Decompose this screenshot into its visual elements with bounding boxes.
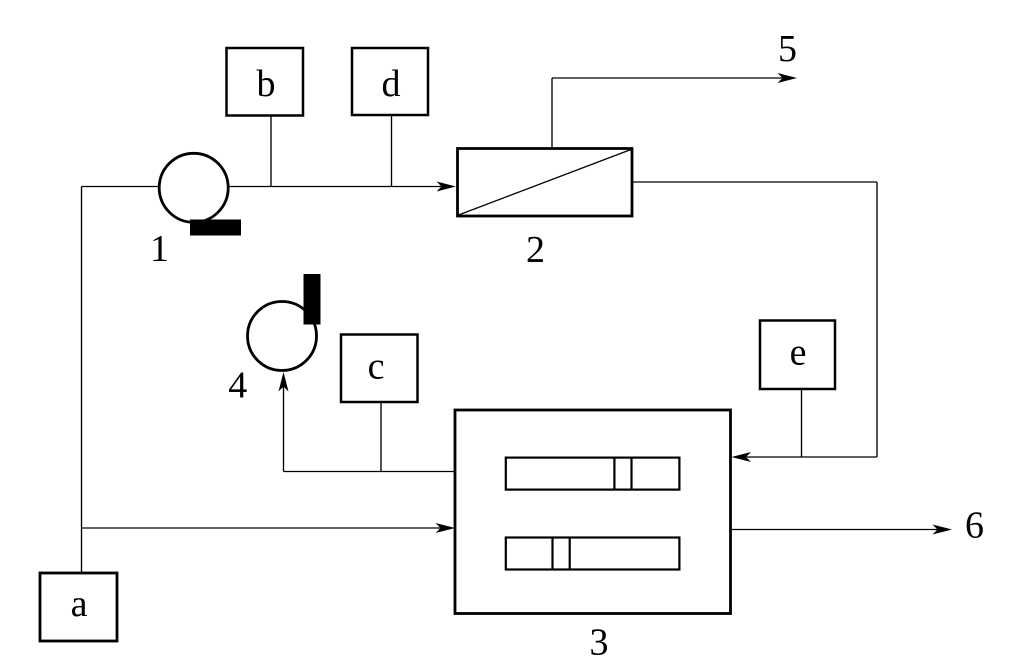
- unit 2 box: [458, 149, 633, 217]
- unit 3 lower cartridge divider 2: [569, 538, 571, 570]
- svg-text:1: 1: [150, 228, 169, 270]
- unit 3 upper cartridge: [506, 458, 680, 490]
- box c: [341, 335, 418, 403]
- unit 3 box: [455, 410, 731, 614]
- svg-text:d: d: [382, 63, 401, 105]
- wire right vertical down: [876, 182, 878, 457]
- unit 3 lower cartridge divider 1: [551, 538, 553, 570]
- svg-text:b: b: [257, 63, 276, 105]
- svg-text:4: 4: [228, 365, 247, 407]
- arrowhead into unit 2: [437, 182, 457, 192]
- svg-text:3: 3: [590, 622, 609, 658]
- valve 4 black rect: [304, 274, 321, 325]
- unit 3 upper cartridge divider 2: [630, 458, 632, 490]
- svg-text:a: a: [71, 583, 88, 625]
- valve 4 circle: [248, 302, 317, 371]
- arrowhead into unit 3 right side: [732, 452, 752, 462]
- box d: [352, 48, 428, 115]
- wire stem from box c: [380, 402, 382, 472]
- pump 1 circle: [159, 153, 228, 222]
- wire horizontal to outlet 5: [552, 77, 783, 79]
- unit 3 lower cartridge: [506, 538, 680, 570]
- box e: [760, 321, 835, 390]
- arrowhead into unit 3 left side: [436, 523, 456, 533]
- pump 1 base black rect: [190, 220, 241, 236]
- box b: [227, 48, 304, 116]
- wire outlet 6 from unit 3: [731, 529, 939, 531]
- wire horizontal from unit 3 to valve 4 branch: [284, 471, 456, 473]
- wire stem from box b: [270, 116, 272, 187]
- wire stem up from unit 2 top: [551, 78, 553, 149]
- arrowhead into valve 4: [279, 372, 289, 392]
- svg-text:c: c: [368, 346, 385, 388]
- unit 2 diagonal: [459, 150, 632, 216]
- svg-text:6: 6: [965, 505, 984, 547]
- unit 3 upper cartridge divider 1: [613, 458, 615, 490]
- svg-text:5: 5: [778, 28, 797, 70]
- wire top horizontal feed into unit 2: [82, 186, 442, 188]
- box a: [40, 573, 117, 641]
- wire vertical up to valve 4: [283, 386, 285, 472]
- wire bottom main feed into unit 3: [82, 527, 442, 529]
- svg-text:e: e: [790, 332, 807, 374]
- arrowhead outlet 5: [778, 73, 798, 83]
- wire stem from box e: [801, 389, 803, 457]
- wire stem from box d: [391, 116, 393, 187]
- wire horizontal into unit 3 right side: [746, 456, 877, 458]
- arrowhead outlet 6: [933, 525, 953, 535]
- wire from unit 2 right side: [632, 181, 877, 183]
- wire left vertical from pump line down to box a: [81, 187, 83, 574]
- svg-text:2: 2: [526, 229, 545, 271]
